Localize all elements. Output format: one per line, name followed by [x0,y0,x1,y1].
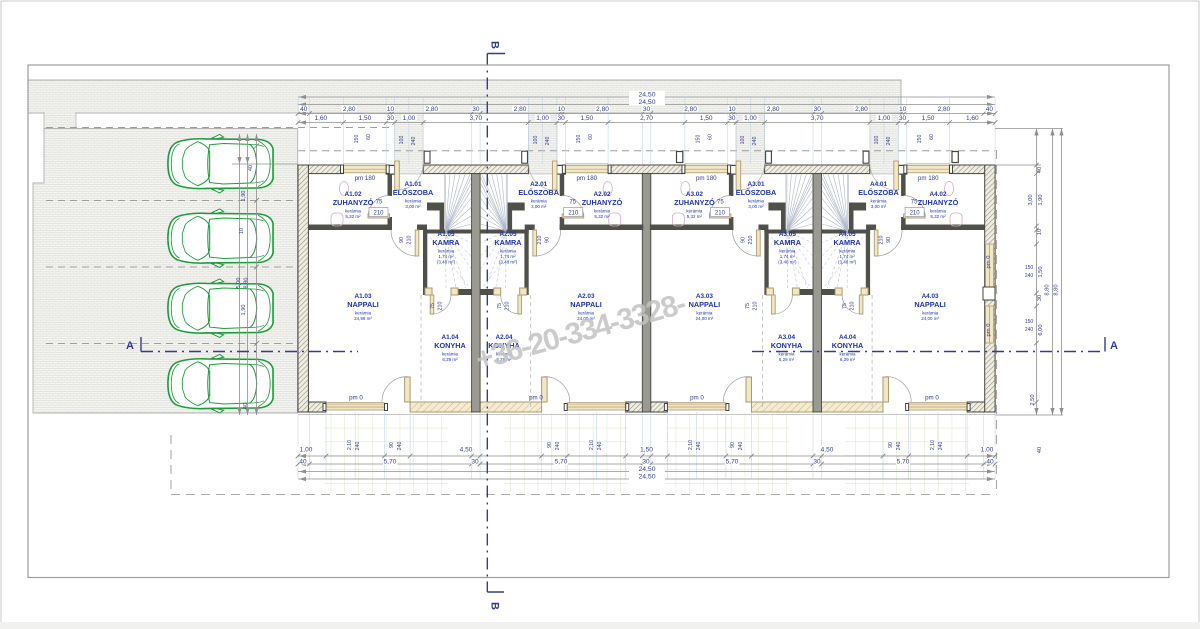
svg-text:100: 100 [399,136,405,145]
svg-text:ELŐSZOBA: ELŐSZOBA [858,188,899,197]
svg-text:1,50: 1,50 [640,447,653,454]
svg-text:210: 210 [748,236,754,245]
svg-text:10: 10 [558,106,566,113]
svg-text:A2.01: A2.01 [530,181,547,188]
terrace tiles unit3 [665,413,789,493]
svg-text:210: 210 [537,236,543,245]
svg-text:150: 150 [354,135,360,144]
svg-text:75: 75 [497,303,503,309]
unit3 entrance door swing [738,164,764,190]
svg-text:75: 75 [842,303,848,309]
svg-text:60: 60 [588,134,594,140]
svg-text:NAPPALI: NAPPALI [914,300,946,309]
svg-text:1,90: 1,90 [241,305,247,316]
unit4 entrance door post [863,151,869,163]
car 2 (parking) [168,209,273,268]
party wall units 1-2 [472,174,481,412]
svg-text:6,29 m²: 6,29 m² [779,357,795,362]
window pm0 unit4 right wall upper [986,244,994,293]
svg-text:2,80: 2,80 [855,106,868,113]
svg-text:24,50: 24,50 [638,92,655,99]
unit1 entrance door post [424,151,430,163]
svg-text:A4.03: A4.03 [922,293,939,300]
svg-text:ELŐSZOBA: ELŐSZOBA [518,188,559,197]
svg-text:24,50: 24,50 [638,473,655,480]
unit4 kamra door leaf and swing [859,295,863,314]
unit3 kamra door leaf and swing [772,295,776,314]
svg-text:2,10: 2,10 [688,440,694,450]
unit1 hall-living door leaf and swing [415,230,419,256]
window pm0 unit4 right wall lower [986,306,994,343]
parking divider dashed 2 [46,266,297,268]
svg-text:kerámia: kerámia [839,249,856,254]
unit2 bath partition wall [560,174,565,196]
svg-text:60: 60 [366,134,372,140]
svg-text:KAMRA: KAMRA [834,238,862,247]
unit4 bath wc [950,213,962,226]
svg-text:ZUHANYZÓ: ZUHANYZÓ [333,198,374,207]
svg-text:pm 0: pm 0 [349,395,363,402]
svg-text:240: 240 [1025,273,1034,279]
svg-text:8,80: 8,80 [244,278,250,289]
svg-text:5,70: 5,70 [555,459,568,466]
unit2 bath bottom wall [560,225,644,231]
svg-text:10: 10 [1037,229,1043,235]
svg-text:2,70: 2,70 [640,115,653,122]
svg-text:2,80: 2,80 [684,106,697,113]
svg-text:pm 180: pm 180 [918,175,939,182]
svg-text:kerámia: kerámia [870,199,887,204]
svg-text:A4.01: A4.01 [870,181,887,188]
entrance walkway paving unit2 [528,113,557,174]
window block right wall [983,287,995,300]
svg-text:240: 240 [545,137,551,146]
unit1 bath partition wall [388,174,393,196]
svg-text:210: 210 [753,302,759,311]
svg-text:210: 210 [373,211,384,217]
svg-text:90: 90 [389,442,395,448]
unit1 terrace door leaf and swing [405,377,411,402]
terrace tiles unit1 [324,413,448,493]
svg-text:ZUHANYZÓ: ZUHANYZÓ [582,198,623,207]
window pm0 unit4 living (bottom wall) [909,404,968,410]
unit1 entrance door swing [397,164,423,190]
svg-text:KAMRA: KAMRA [432,238,460,247]
svg-text:5,32 m²: 5,32 m² [345,214,361,219]
unit2 kamra top wall [480,230,529,234]
svg-text:1,60: 1,60 [314,115,327,122]
unit4 entrance door leaf (tan) [894,161,899,190]
svg-text:90: 90 [740,237,746,243]
svg-text:A4.02: A4.02 [929,191,946,198]
svg-text:100: 100 [874,136,880,145]
overall dimension 24,50 line 2 [298,104,995,106]
svg-text:A3.05: A3.05 [779,231,796,238]
car 4 (parking) [168,354,273,413]
svg-text:pm 0: pm 0 [925,395,939,402]
svg-text:kerámia: kerámia [696,311,713,316]
unit2 bath washbasin [603,182,612,196]
parking area paving [33,129,298,414]
svg-text:40: 40 [1037,447,1043,453]
svg-text:240: 240 [696,442,702,451]
unit2 kamra bottom wall / konyha top wall [480,289,494,295]
svg-text:1,50: 1,50 [580,115,593,122]
svg-text:A1.02: A1.02 [344,191,361,198]
unit4 kamra bottom wall / konyha top wall [822,289,836,295]
unit4 bath partition wall [901,174,906,196]
svg-text:A3.01: A3.01 [747,181,764,188]
unit3 staircase [786,175,813,232]
svg-text:24,99 m²: 24,99 m² [354,316,372,321]
svg-text:kerámia: kerámia [778,352,795,357]
svg-text:24,00 m²: 24,00 m² [921,316,939,321]
bottom dimension row 1 (1,00/2,10/90/4,50...) [298,455,995,457]
svg-text:1,00: 1,00 [878,115,891,122]
property boundary dashed left segment [170,435,172,495]
unit4 entrance door swing [870,164,896,190]
svg-text:1,00: 1,00 [744,115,757,122]
unit3 kamra bottom wall / konyha top wall [799,289,813,295]
svg-text:40: 40 [986,459,994,466]
unit3 bath wc [672,213,684,226]
entrance walkway paving unit4 [870,113,899,174]
unit4 bath bottom wall [901,225,985,231]
exterior wall top [298,165,344,174]
svg-text:210: 210 [438,302,444,311]
svg-text:5,70: 5,70 [384,459,397,466]
svg-text:40: 40 [299,459,307,466]
svg-text:3,00: 3,00 [1028,194,1034,205]
svg-text:pm 180: pm 180 [696,175,717,182]
svg-text:A2.05: A2.05 [499,231,516,238]
svg-text:4,50: 4,50 [821,447,834,454]
svg-text:2,80: 2,80 [767,106,780,113]
svg-text:30: 30 [1037,295,1043,301]
svg-text:(3,48 m²): (3,48 m²) [437,260,456,265]
terrace tiles unit4 [845,413,969,493]
svg-text:2,80: 2,80 [343,106,356,113]
unit1 bath wc [331,213,343,226]
party wall units 3-4 [813,174,822,412]
svg-text:6,29 m²: 6,29 m² [442,357,458,362]
unit1 bath bottom wall [308,225,392,231]
svg-text:75: 75 [911,200,918,206]
window pm180 unit3 bath (top wall) [685,166,728,173]
svg-text:(3,48 m²): (3,48 m²) [499,260,518,265]
svg-text:240: 240 [752,137,758,146]
window pm180 unit2 bath (top wall) [565,166,608,173]
svg-text:2,10: 2,10 [930,440,936,450]
section line B vertical [487,54,505,593]
entrance jamb post unit3 [728,165,737,174]
unit2 hall stub wall [525,225,535,231]
svg-text:KONYHA: KONYHA [771,341,803,350]
overall dimension 24,50 line 1 [298,96,995,98]
svg-text:1,90: 1,90 [1038,194,1044,205]
svg-text:30: 30 [813,459,821,466]
svg-text:1,00: 1,00 [403,115,416,122]
svg-text:2,80: 2,80 [596,106,609,113]
svg-text:40: 40 [1037,167,1043,173]
unit1 staircase [445,175,472,232]
unit1 konyha open boundary dashed [420,295,422,410]
svg-text:A2.03: A2.03 [577,293,594,300]
paved connector strip left [44,112,76,129]
paved driveway band top [28,80,901,113]
svg-text:pm 0: pm 0 [986,324,992,337]
svg-text:90: 90 [399,237,405,243]
svg-text:2,50: 2,50 [1030,394,1036,405]
property boundary dashed bottom [171,494,997,496]
unit2 hall-living door leaf and swing [533,230,537,256]
property boundary dashed right [996,150,998,495]
svg-text:90: 90 [730,442,736,448]
svg-text:A: A [1110,340,1118,352]
unit2 kamra left wall [524,230,528,296]
svg-text:210: 210 [505,302,511,311]
dimension row exterior walls (40/2,80/10...) [298,113,995,115]
svg-text:24,50: 24,50 [638,466,655,473]
unit1 entrance door leaf (tan) [395,161,400,190]
svg-text:A1.03: A1.03 [354,293,371,300]
window pm0 unit1 living (bottom wall) [326,404,385,410]
svg-text:10: 10 [387,106,395,113]
svg-text:pm 180: pm 180 [576,175,597,182]
svg-text:60: 60 [708,134,714,140]
svg-text:1,90: 1,90 [241,191,247,202]
svg-text:A2.02: A2.02 [593,191,610,198]
svg-text:3,70: 3,70 [469,115,482,122]
svg-text:240: 240 [1025,327,1034,333]
svg-text:240: 240 [886,137,892,146]
unit1 hall stub wall [417,225,427,231]
unit1 bath washbasin [339,182,348,196]
svg-text:5,70: 5,70 [726,459,739,466]
svg-text:(3,48 m²): (3,48 m²) [838,260,857,265]
parking area top dashed line [46,127,394,129]
svg-text:3,00 m²: 3,00 m² [531,204,547,209]
svg-text:A4.05: A4.05 [839,231,856,238]
svg-text:A: A [126,340,134,352]
entrance jamb post unit4 [898,165,907,174]
svg-text:90: 90 [888,442,894,448]
terrace edge line [298,414,995,416]
party wall units 2-3 [642,174,651,412]
unit4 bath door leaf and swing [904,214,926,218]
exterior wall right [985,165,995,412]
unit1 kamra top wall [423,230,472,234]
downpipe post unit4 [952,152,958,163]
entrance jamb post unit2 [557,165,566,174]
svg-text:8,80: 8,80 [1045,284,1051,295]
bottom overall 24,50 line 2 [298,478,995,480]
unit2 terrace door leaf and swing [542,377,548,402]
svg-text:kerámia: kerámia [438,249,455,254]
svg-text:30: 30 [899,115,907,122]
svg-text:B: B [489,602,501,610]
svg-text:3,00 m²: 3,00 m² [405,204,421,209]
svg-text:90: 90 [886,237,892,243]
svg-text:30: 30 [471,459,479,466]
svg-text:1,00: 1,00 [536,115,549,122]
svg-text:KAMRA: KAMRA [774,238,802,247]
svg-text:30: 30 [472,106,480,113]
svg-text:pm 180: pm 180 [355,175,376,182]
section line A-A [141,337,1105,352]
svg-text:210: 210 [568,211,579,217]
svg-text:240: 240 [397,442,403,451]
svg-text:30: 30 [387,115,395,122]
window pm0 unit2 living (bottom wall) [567,404,626,410]
svg-text:40: 40 [300,106,308,113]
svg-text:6,00: 6,00 [1038,324,1044,335]
svg-text:150: 150 [696,135,702,144]
svg-text:1,00: 1,00 [300,447,313,454]
svg-text:kerámia: kerámia [531,199,548,204]
svg-text:NAPPALI: NAPPALI [570,300,602,309]
svg-text:3,00 m²: 3,00 m² [871,204,887,209]
page bottom shade [0,622,1200,629]
svg-text:210: 210 [407,236,413,245]
svg-text:240: 240 [411,137,417,146]
svg-text:75: 75 [430,303,436,309]
svg-text:A4.04: A4.04 [839,334,856,341]
unit4 konyha open boundary dashed [871,295,873,410]
unit4 terrace door leaf and swing [883,377,889,402]
svg-text:4,50: 4,50 [460,447,473,454]
svg-text:pm 0: pm 0 [986,256,992,269]
unit3 kamra left wall [764,230,768,296]
svg-text:pm 0: pm 0 [529,395,543,402]
svg-text:2,10: 2,10 [347,440,353,450]
svg-text:pm 0: pm 0 [690,395,704,402]
svg-text:240: 240 [555,442,561,451]
svg-text:10: 10 [899,106,907,113]
svg-text:24,00 m²: 24,00 m² [696,316,714,321]
parking divider dashed 1 [46,200,297,202]
unit2 bath wc [609,213,621,226]
window pm0 unit3 living (bottom wall) [667,404,726,410]
svg-text:5,00: 5,00 [236,278,242,289]
svg-text:1,00: 1,00 [981,447,994,454]
exterior wall bottom [298,402,326,412]
terrace tiles unit2 [504,413,628,493]
svg-text:ZUHANYZÓ: ZUHANYZÓ [674,198,715,207]
svg-text:kerámia: kerámia [748,199,765,204]
svg-text:240: 240 [597,442,603,451]
svg-text:150: 150 [917,135,923,144]
svg-text:30: 30 [557,115,565,122]
svg-text:75: 75 [745,303,751,309]
svg-text:kerámia: kerámia [922,311,939,316]
svg-text:NAPPALI: NAPPALI [347,300,379,309]
svg-text:5,70: 5,70 [897,459,910,466]
unit3 terrace door leaf and swing [746,377,752,402]
window pm180 unit4 bath (top wall) [907,166,950,173]
svg-text:150: 150 [1025,319,1034,325]
svg-text:B: B [489,41,501,49]
svg-text:A3.03: A3.03 [696,293,713,300]
unit1 bath door leaf and swing [368,214,390,218]
downpipe post unit3 [677,152,683,163]
svg-text:A1.01: A1.01 [404,181,421,188]
svg-text:210: 210 [850,302,856,311]
svg-text:kerámia: kerámia [500,249,517,254]
window pm180 unit1 bath (top wall) [344,166,387,173]
svg-text:40: 40 [986,106,994,113]
svg-text:100: 100 [533,136,539,145]
unit1 kamra left wall [423,230,427,296]
unit4 hall-living door leaf and swing [874,230,878,256]
svg-text:1,74 m²: 1,74 m² [839,254,855,259]
svg-text:kerámia: kerámia [839,352,856,357]
svg-text:2,80: 2,80 [514,106,527,113]
unit1 kamra door leaf and swing [430,295,434,314]
unit2 bath door leaf and swing [562,214,584,218]
svg-text:1,50: 1,50 [359,115,372,122]
svg-text:40: 40 [248,165,254,171]
svg-text:1,50: 1,50 [700,115,713,122]
unit3 bath bottom wall [650,225,734,231]
svg-text:240: 240 [896,442,902,451]
svg-text:150: 150 [1025,265,1034,271]
exterior wall left [298,165,308,412]
svg-text:75: 75 [569,200,576,206]
unit4 hall stub wall [866,225,876,231]
unit4 staircase [822,175,849,232]
entrance jamb post unit1 [386,165,395,174]
unit2 entrance door leaf (tan) [552,161,557,190]
svg-text:1,50: 1,50 [922,115,935,122]
svg-text:210: 210 [910,211,921,217]
svg-text:5,32 m²: 5,32 m² [930,214,946,219]
svg-text:1,74 m²: 1,74 m² [500,254,516,259]
svg-text:3,70: 3,70 [811,115,824,122]
svg-text:ELŐSZOBA: ELŐSZOBA [393,188,434,197]
svg-text:30: 30 [642,459,650,466]
unit3 konyha open boundary dashed [761,295,763,410]
roof overhang dashed line [298,150,995,152]
svg-text:240: 240 [938,442,944,451]
drawing frame border [28,65,1169,578]
svg-text:100: 100 [740,136,746,145]
svg-text:10: 10 [728,106,736,113]
svg-text:210: 210 [715,211,726,217]
svg-text:5,32 m²: 5,32 m² [594,214,610,219]
svg-text:KAMRA: KAMRA [494,238,522,247]
right dimension chain lines [995,128,1063,130]
svg-text:kerámia: kerámia [355,311,372,316]
svg-text:kerámia: kerámia [930,209,947,214]
bottom dimension row 2 (40/5,70/30...) [298,463,995,465]
unit3 bath washbasin [681,182,690,196]
svg-text:kerámia: kerámia [442,352,459,357]
unit2 staircase [480,175,507,232]
svg-text:75: 75 [717,200,724,206]
svg-text:90: 90 [547,442,553,448]
parking dimension lines [232,163,298,165]
entrance walkway paving unit1 [395,113,424,174]
unit3 bath door leaf and swing [709,214,731,218]
svg-text:240: 240 [355,442,361,451]
svg-text:kerámia: kerámia [686,209,703,214]
parking divider dashed 3 [46,343,297,345]
dimension row openings (1,60/1,50/30/1,00/3,70...) [298,122,995,124]
svg-text:30: 30 [814,106,822,113]
unit4 kamra left wall [866,230,870,296]
svg-text:(3,48 m²): (3,48 m²) [778,260,797,265]
